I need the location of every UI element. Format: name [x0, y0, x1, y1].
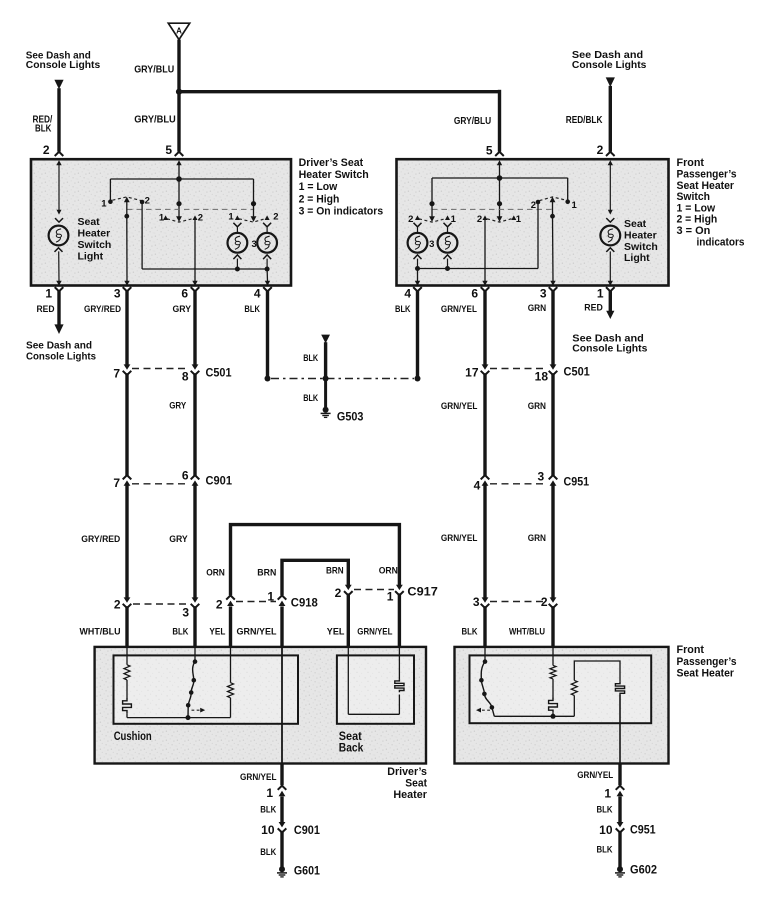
- svg-text:C901: C901: [206, 474, 233, 488]
- connector C917 pin 2 (YEL): [345, 585, 352, 590]
- switch S5 contact 1 arrow: [511, 215, 516, 220]
- pin 6 passenger switch (bottom): [482, 281, 487, 286]
- svg-text:GRY: GRY: [169, 401, 187, 412]
- svg-text:1: 1: [597, 287, 604, 301]
- wire R4 up and over to element: [574, 661, 620, 682]
- svg-text:Front: Front: [677, 157, 705, 169]
- svg-text:4: 4: [474, 479, 481, 493]
- svg-text:1 = Low: 1 = Low: [677, 202, 716, 214]
- wire RED/BLK to passenger switch pin 2: [609, 86, 612, 152]
- connector C501 pin 17: [482, 364, 489, 369]
- svg-text:C951: C951: [630, 822, 656, 836]
- resistor cushion heater R2: [228, 683, 234, 698]
- svg-text:GRN: GRN: [528, 533, 546, 544]
- svg-text:GRN/YEL: GRN/YEL: [441, 304, 477, 315]
- driver's seat heater switch box U-DRV: [31, 159, 291, 285]
- ganged-switch mechanical link dashed (passenger): [432, 208, 552, 210]
- connector A (to power source): [168, 23, 189, 39]
- dashed connector link C901: [132, 483, 189, 485]
- switch S3 contact 2 arrow: [265, 215, 270, 220]
- pin 3 driver switch (bottom): [124, 281, 129, 286]
- junction dot rail x pin5 (passenger): [497, 175, 503, 181]
- wire WHT/BLU inside passenger heater: [552, 648, 554, 665]
- svg-text:BLK: BLK: [462, 627, 478, 638]
- wire GRN/YEL passenger heater to C951: [618, 764, 621, 786]
- resistor passenger heater R3: [550, 665, 556, 679]
- wire seat back return rail: [348, 713, 399, 715]
- svg-text:4: 4: [254, 287, 261, 301]
- connector C917 pin 1 (GRN/YEL): [396, 585, 403, 590]
- switch S1 contact 2 dot: [140, 200, 145, 205]
- pin 4 driver switch (bottom): [265, 281, 270, 286]
- thermostat switch cushion: [188, 662, 195, 718]
- svg-text:2: 2: [477, 214, 482, 225]
- wire YEL C918 to heater: [229, 606, 232, 648]
- svg-text:Console Lights: Console Lights: [572, 59, 647, 71]
- svg-text:Switch: Switch: [677, 191, 711, 203]
- svg-text:C918: C918: [291, 596, 318, 610]
- indicator lamp L1 (low): [228, 233, 248, 253]
- lamp seat heater switch light (driver): [49, 226, 69, 246]
- wire S1 pole down to pin 3: [126, 216, 128, 281]
- svg-text:indicators: indicators: [697, 236, 745, 248]
- svg-text:BLK: BLK: [597, 805, 613, 816]
- indicator lamp L3 terminal bottom: [414, 255, 422, 259]
- svg-text:1: 1: [604, 787, 611, 801]
- svg-text:Passenger’s: Passenger’s: [677, 169, 737, 181]
- svg-text:2: 2: [43, 143, 50, 157]
- thermostat actuator dashed arrow (passenger): [476, 708, 481, 713]
- pin 1 driver switch (bottom): [56, 281, 61, 286]
- svg-text:C917: C917: [407, 585, 438, 599]
- ground G602: [617, 866, 623, 872]
- svg-text:3: 3: [252, 239, 257, 250]
- junction dot L3 on rail: [415, 266, 420, 271]
- pin 4 passenger switch (bottom): [415, 281, 420, 286]
- junction dot pin5 pole (passenger): [497, 201, 502, 206]
- thermostat contact dots: [193, 659, 198, 664]
- svg-text:2: 2: [335, 586, 342, 600]
- svg-text:WHT/BLU: WHT/BLU: [509, 627, 545, 638]
- switch S6 contact 2 dot: [536, 200, 541, 205]
- wire WHT/BLU to heater: [125, 606, 128, 648]
- switch S3 contact 1 arrow: [235, 215, 240, 220]
- wire fuse to rail (passenger): [552, 713, 554, 717]
- svg-text:6: 6: [181, 287, 188, 301]
- svg-text:Passenger’s: Passenger’s: [677, 656, 737, 668]
- switch S3 pole arrow down: [251, 216, 257, 222]
- svg-text:3: 3: [540, 287, 547, 301]
- indicator lamp L4 terminal top: [444, 223, 452, 227]
- arrow to dash and console lights (bottom left): [54, 324, 63, 334]
- svg-text:GRN/YEL: GRN/YEL: [357, 626, 392, 637]
- wire GRN/YEL C917 to seat back: [398, 593, 401, 648]
- svg-text:Cushion: Cushion: [114, 731, 152, 743]
- junction dot G503: [323, 376, 329, 382]
- wire WHT/BLU to passenger heater: [551, 606, 554, 648]
- front passenger's seat heater box: [455, 647, 669, 764]
- svg-text:BLK: BLK: [172, 626, 188, 637]
- svg-text:GRN: GRN: [528, 303, 547, 314]
- svg-text:BRN: BRN: [326, 566, 344, 577]
- driver's seat heater box: [95, 647, 426, 764]
- wire R3 to thermal fuse: [552, 679, 554, 699]
- wire WHT/BLU inside cushion: [126, 648, 128, 665]
- pin 5 driver switch (top): [175, 152, 184, 156]
- connector pin 3 (BLK) seat harness: [192, 597, 199, 602]
- svg-text:1: 1: [159, 213, 165, 224]
- svg-text:GRN/YEL: GRN/YEL: [577, 770, 613, 781]
- switch S3 dashed throw: [239, 219, 266, 223]
- wire BLK inside passenger heater: [484, 648, 486, 662]
- indicator lamp L4 terminal bottom: [444, 255, 452, 259]
- wire GRN/YEL through heater box: [281, 648, 283, 764]
- svg-text:3 = On: 3 = On: [677, 225, 711, 237]
- svg-text:2 = High: 2 = High: [299, 193, 340, 205]
- svg-text:Seat: Seat: [624, 218, 647, 230]
- wire rail right leg to low contact (passenger): [567, 178, 569, 202]
- connector pin 3 (BLK) passenger seat harness: [482, 597, 489, 602]
- pin 1 passenger switch (bottom): [608, 281, 613, 286]
- wire BLK junction to G601 ground point: [324, 379, 327, 408]
- wire S5 contact2 down to pin 6 (passenger): [484, 220, 486, 282]
- svg-text:Switch: Switch: [624, 241, 658, 253]
- connector C918 pin 2 (YEL): [226, 595, 235, 599]
- wire GRY C501 to C901: [193, 373, 196, 475]
- svg-text:GRN: GRN: [528, 401, 546, 412]
- svg-text:GRN/YEL: GRN/YEL: [441, 401, 478, 412]
- wire GRY/BLU from connector A down to junction: [177, 40, 180, 94]
- wire R2 to rail: [230, 698, 232, 718]
- svg-text:2: 2: [408, 214, 413, 225]
- resistor passenger heater R4: [571, 680, 577, 695]
- svg-text:C901: C901: [294, 823, 320, 837]
- seat heater switch light terminal cup: [55, 218, 63, 222]
- indicator lamp L1 terminal top: [233, 223, 241, 227]
- svg-text:BLK: BLK: [35, 124, 52, 135]
- switch S4 contact 1 arrow: [445, 215, 450, 220]
- svg-text:BLK: BLK: [303, 393, 318, 404]
- switch S6 contact 1 dot: [565, 199, 570, 204]
- svg-text:RED/BLK: RED/BLK: [566, 115, 603, 126]
- wire BLK to C901: [280, 796, 283, 822]
- svg-text:10: 10: [599, 823, 613, 837]
- svg-text:Heater Switch: Heater Switch: [299, 169, 369, 181]
- svg-text:3: 3: [473, 595, 480, 609]
- svg-text:1: 1: [387, 590, 394, 604]
- dashed connector link C951: [490, 483, 547, 485]
- wire GRN/YEL inside seat back: [398, 648, 400, 679]
- switch S4 dashed throw: [419, 219, 446, 223]
- thermostat switch passenger: [481, 662, 494, 717]
- svg-text:GRY/BLU: GRY/BLU: [454, 116, 491, 127]
- connector C901 pin 10: [279, 822, 286, 827]
- arrow ground feed G503 (from body harness): [321, 335, 330, 344]
- junction dot thermostat on rail: [186, 715, 191, 720]
- svg-text:Heater: Heater: [78, 228, 111, 240]
- svg-text:1 = Low: 1 = Low: [299, 181, 338, 193]
- svg-text:6: 6: [182, 469, 189, 483]
- svg-text:Seat: Seat: [339, 731, 362, 743]
- switch light lower terminal chevron: [55, 248, 63, 252]
- svg-text:BLK: BLK: [303, 353, 318, 364]
- svg-text:6: 6: [471, 287, 478, 301]
- indicator lamp L3 (passenger): [408, 233, 428, 253]
- indicator lamp L2 terminal bottom: [263, 255, 271, 259]
- svg-text:WHT/BLU: WHT/BLU: [80, 626, 121, 637]
- wire element to rail: [398, 695, 400, 715]
- arrow from dash lights down (left): [54, 80, 63, 90]
- svg-text:GRY/RED: GRY/RED: [84, 304, 121, 315]
- wire BLK passenger pin4 down: [416, 290, 419, 378]
- junction dot pin4 to ground link: [265, 376, 271, 382]
- svg-text:Console Lights: Console Lights: [572, 343, 647, 355]
- svg-text:7: 7: [113, 367, 120, 381]
- svg-text:C501: C501: [206, 366, 232, 380]
- svg-text:Front: Front: [677, 644, 705, 656]
- svg-text:17: 17: [465, 366, 479, 380]
- svg-text:YEL: YEL: [209, 626, 225, 637]
- junction dot S1 pole lower: [124, 214, 129, 219]
- svg-text:2: 2: [216, 598, 223, 612]
- svg-text:BRN: BRN: [257, 568, 276, 579]
- junction dot indicator pole (passenger): [429, 201, 434, 206]
- ground G503: [323, 407, 329, 413]
- svg-text:2: 2: [198, 213, 203, 224]
- junction dot L2 on rail: [265, 267, 270, 272]
- svg-text:Heater: Heater: [624, 229, 657, 241]
- pin 2 passenger switch (top): [606, 152, 615, 156]
- connector pin 1 passenger heater ground lead: [616, 786, 625, 790]
- switch S2 contact 1 arrow: [163, 215, 168, 220]
- wire fuse to return rail: [126, 713, 128, 717]
- svg-text:1: 1: [101, 199, 107, 210]
- wire YEL inside cushion: [230, 648, 232, 683]
- svg-text:Light: Light: [78, 250, 104, 262]
- wire GRY/RED pin3 to C501: [125, 290, 128, 365]
- indicator lamp L1 terminal bottom: [233, 255, 241, 259]
- svg-text:3: 3: [114, 287, 121, 301]
- wire BLK to ground G602: [618, 831, 621, 867]
- passenger heater sub-box: [470, 655, 652, 723]
- wire BLK into G503 junction: [324, 342, 327, 378]
- wire main feed horizontal to passenger switch: [177, 90, 499, 93]
- svg-text:BLK: BLK: [260, 805, 276, 816]
- thermostat contact dots (passenger): [483, 659, 488, 664]
- svg-text:3: 3: [538, 470, 545, 484]
- wire GRN/YEL C918 through heater box: [280, 606, 283, 648]
- wire rail right leg to indicator pole: [253, 179, 255, 204]
- wire BLK driver pin4 down: [266, 290, 269, 378]
- junction dot pin5 pole: [176, 201, 181, 206]
- switch S5 contact 2 arrow: [483, 215, 488, 220]
- wire GRY/RED C501 to C901: [125, 373, 128, 475]
- svg-text:3: 3: [429, 239, 434, 250]
- svg-text:RED: RED: [37, 304, 55, 315]
- svg-text:RED: RED: [584, 303, 603, 314]
- svg-text:1: 1: [45, 287, 52, 301]
- switch S1 dimmer: contact 1 dot: [108, 199, 113, 204]
- wire GRN/YEL C951 down: [483, 485, 486, 598]
- svg-text:10: 10: [261, 823, 275, 837]
- svg-text:Seat Heater: Seat Heater: [677, 667, 735, 679]
- connector C901 pin 6: [191, 475, 200, 479]
- svg-text:Back: Back: [339, 742, 364, 754]
- dashed connector link C917: [354, 589, 394, 591]
- svg-text:GRY/BLU: GRY/BLU: [134, 114, 176, 125]
- switch S4 contact 2 arrow: [415, 215, 420, 220]
- dashed ground distribution link: [271, 378, 414, 380]
- wire GRY/BLU down to passenger switch pin 5: [498, 90, 501, 152]
- wire rail down to pin 4: [266, 269, 268, 281]
- connector C951 pin 3: [549, 475, 558, 479]
- junction dot main feed: [176, 89, 182, 95]
- switch S2 contact 2 arrow: [193, 215, 198, 220]
- svg-text:BLK: BLK: [597, 845, 613, 856]
- wire cushion return rail: [127, 717, 231, 719]
- wire BLK to ground G601: [280, 831, 283, 867]
- svg-text:GRY/RED: GRY/RED: [81, 534, 120, 545]
- pin 5 passenger switch (top): [495, 152, 504, 156]
- junction dot rail x pin5: [176, 176, 182, 182]
- svg-text:3: 3: [182, 606, 189, 620]
- svg-text:Console Lights: Console Lights: [26, 59, 101, 71]
- wire GRN/YEL passenger pin6 to C501: [483, 290, 486, 365]
- passenger switch light terminal cup: [606, 218, 614, 222]
- svg-text:2: 2: [145, 195, 150, 206]
- wire indicator lamp return rail (passenger): [418, 268, 539, 270]
- connector C901 pin 7: [123, 475, 132, 479]
- wire BLK to passenger heater: [483, 606, 486, 648]
- svg-text:7: 7: [113, 476, 120, 490]
- wire pin5 down to heat selector pole: [178, 164, 180, 217]
- wire GRY C901 down: [193, 485, 196, 598]
- junction dot indicator pole: [251, 201, 256, 206]
- wire GRN/YEL heater to C901: [280, 764, 283, 786]
- svg-text:GRN/YEL: GRN/YEL: [237, 626, 277, 637]
- svg-text:GRN/YEL: GRN/YEL: [240, 772, 277, 783]
- wire passenger switch light to pin 1: [609, 251, 611, 281]
- svg-text:2: 2: [273, 212, 278, 223]
- svg-text:2: 2: [531, 200, 536, 211]
- svg-text:2 = High: 2 = High: [677, 214, 718, 226]
- svg-text:GRN/YEL: GRN/YEL: [441, 533, 478, 544]
- svg-text:GRY/BLU: GRY/BLU: [134, 64, 174, 75]
- connector C918 pin 1 (GRN/YEL): [278, 595, 287, 599]
- svg-text:Console Lights: Console Lights: [26, 351, 96, 363]
- switch S2 pole arrow down: [176, 216, 182, 222]
- svg-text:2: 2: [114, 598, 121, 612]
- wire YEL C917 to seat back: [347, 593, 350, 648]
- junction dot rail (passenger): [551, 714, 556, 719]
- wire YEL inside seat back: [347, 648, 349, 714]
- wire GRY pin6 to C501: [193, 290, 196, 365]
- svg-text:C951: C951: [564, 475, 590, 489]
- svg-text:A: A: [176, 27, 182, 36]
- svg-text:1: 1: [516, 214, 522, 225]
- thermal fuse cushion: [123, 698, 132, 713]
- wire BRN bridge inner (C918 loop): [282, 560, 348, 595]
- connector C951 pin 10: [617, 822, 624, 827]
- svg-text:BLK: BLK: [260, 847, 276, 858]
- connector C501 pin 18: [550, 364, 557, 369]
- svg-text:G602: G602: [630, 862, 657, 876]
- connector C501 pin 8 (male/female): [192, 364, 199, 369]
- wire element down out of heater box: [619, 695, 621, 764]
- cushion heater sub-box: [114, 655, 299, 723]
- connector C501 pin 7 (male/female): [124, 364, 131, 369]
- svg-text:Seat Heater: Seat Heater: [677, 180, 735, 192]
- svg-text:Driver’s: Driver’s: [387, 766, 427, 778]
- svg-text:G601: G601: [294, 863, 320, 877]
- junction dot L4 on rail: [445, 266, 450, 271]
- ganged-switch mechanical link (dashed): [127, 208, 253, 210]
- indicator lamp L2 terminal top: [263, 223, 271, 227]
- svg-text:5: 5: [486, 144, 493, 158]
- wire R1 to thermal fuse: [126, 680, 128, 699]
- passenger switch light lower terminal chevron: [606, 248, 614, 252]
- connector C951 pin 4: [481, 475, 490, 479]
- svg-text:1: 1: [266, 786, 273, 800]
- indicator lamp L4 (passenger): [438, 233, 458, 253]
- indicator lamp L2 (high): [257, 233, 277, 253]
- svg-text:Driver’s Seat: Driver’s Seat: [299, 157, 364, 169]
- svg-text:3 = On indicators: 3 = On indicators: [299, 206, 384, 218]
- switch S6 pole arrow up: [550, 197, 556, 203]
- wire RED from pin 1 to dash lights: [57, 290, 60, 324]
- arrow from dash lights down (right): [606, 77, 615, 87]
- switch S2 dashed throw: [167, 219, 193, 223]
- wire ORN bridge left (C917 loop): [231, 525, 400, 596]
- junction dot L1 on rail: [235, 267, 240, 272]
- wire RED passenger pin1 to dash lights: [609, 290, 612, 311]
- wire BLK to heater: [193, 606, 196, 648]
- wire GRY/RED C901 down: [125, 485, 128, 598]
- ground G601: [279, 866, 285, 872]
- svg-text:Heater: Heater: [393, 789, 427, 801]
- switch S6 dashed throw: [540, 197, 567, 201]
- svg-text:1: 1: [228, 212, 234, 223]
- wire S6 contact2 down to lamp rail (passenger): [537, 202, 539, 269]
- wire rail down to pin 4 (passenger): [417, 269, 419, 282]
- svg-text:2: 2: [597, 143, 604, 157]
- svg-text:Light: Light: [624, 252, 650, 264]
- switch S1 pole arrow up: [124, 197, 130, 203]
- dashed connector link harness: [133, 603, 189, 605]
- passenger switch light terminal arrow: [609, 164, 611, 211]
- front passenger's seat heater switch box: [397, 159, 669, 285]
- pin 6 driver switch (bottom): [192, 281, 197, 286]
- connector pin 1 heater ground lead: [278, 786, 287, 790]
- svg-text:1: 1: [572, 200, 578, 211]
- wire GRN C501 to C951: [551, 373, 554, 475]
- wire indicator lamp return rail: [142, 268, 267, 270]
- switch S5 dashed throw: [487, 219, 512, 223]
- svg-text:G503: G503: [337, 410, 364, 424]
- seat heater switch light terminal arrow: [58, 164, 60, 211]
- wire GRN/YEL C501 to C951: [483, 373, 486, 475]
- wire passenger heater return rail: [494, 715, 574, 717]
- svg-text:C501: C501: [564, 365, 591, 379]
- svg-text:8: 8: [182, 370, 189, 384]
- svg-text:5: 5: [165, 143, 172, 157]
- connector pin 2 (WHT/BLU) seat harness: [124, 597, 131, 602]
- wire pin5 internal feed rail (passenger): [432, 177, 568, 179]
- svg-text:Seat: Seat: [405, 778, 427, 790]
- wire S2 contact2 down to pin 6: [194, 220, 196, 282]
- lamp seat heater switch light (passenger): [600, 226, 620, 246]
- wire rail riser to R4: [573, 695, 575, 716]
